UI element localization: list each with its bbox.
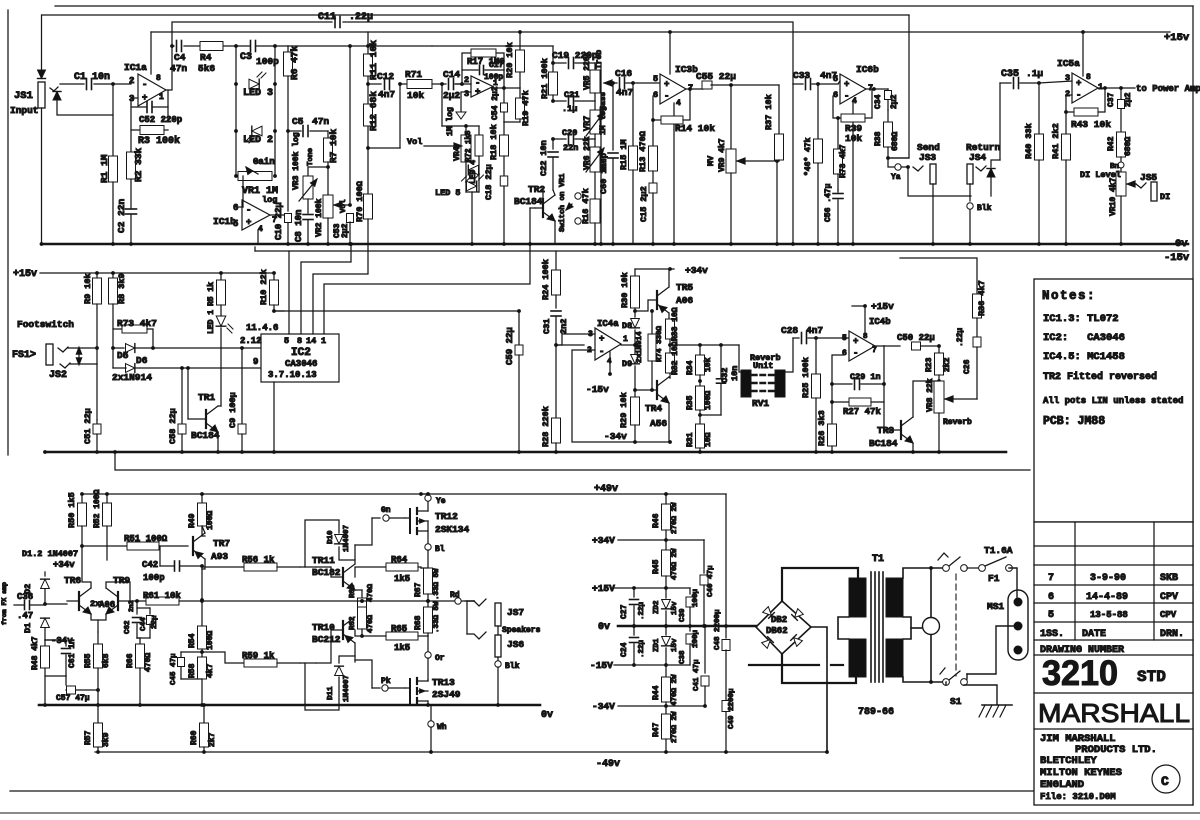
- wire R10 C59 run: [274, 310, 519, 312]
- wire reverb out: [785, 338, 793, 372]
- svg-text:+15v: +15v: [1164, 32, 1190, 44]
- svg-text:FS1>: FS1>: [12, 350, 36, 361]
- mosfet TR13: [409, 679, 411, 703]
- resistor R29: [631, 397, 640, 425]
- svg-text:-34v: -34v: [604, 431, 627, 442]
- svg-text:6: 6: [842, 349, 847, 358]
- capacitor C12: [384, 79, 386, 90]
- svg-text:D6: D6: [136, 355, 148, 366]
- svg-text:4k7: 4k7: [206, 663, 215, 678]
- resistor R72: [478, 126, 480, 135]
- svg-text:6: 6: [653, 90, 658, 100]
- svg-text:TR2 Fitted reversed: TR2 Fitted reversed: [1043, 371, 1157, 383]
- resistor R50: [81, 494, 83, 503]
- wire IC5a in: [1039, 81, 1072, 83]
- wire to IC3b: [633, 82, 660, 84]
- capacitor C29: [832, 355, 843, 384]
- svg-text:+15v: +15v: [871, 301, 894, 312]
- svg-text:47n: 47n: [312, 116, 329, 127]
- svg-text:D10: D10: [327, 530, 335, 544]
- svg-text:C27: C27: [620, 604, 629, 619]
- svg-text:C24: C24: [620, 642, 629, 657]
- svg-text:DI: DI: [1160, 192, 1170, 202]
- capacitor C32: [720, 345, 722, 378]
- resistor R31: [699, 415, 701, 424]
- wire R12 R70: [366, 146, 370, 150]
- wire transformer secondary ct: [838, 617, 849, 639]
- wire tone out: [604, 82, 613, 84]
- svg-text:2x1N914: 2x1N914: [636, 331, 644, 363]
- svg-text:C50 22µ: C50 22µ: [897, 333, 935, 343]
- bridge rectifier DB2: [756, 601, 811, 654]
- capacitor C57: [65, 676, 67, 685]
- svg-text:Vol: Vol: [407, 137, 422, 147]
- diode D11: [305, 663, 339, 710]
- resistor R67: [424, 568, 433, 594]
- wire JS1 sleeve to FX area top run: [42, 14, 909, 16]
- resistor R3: [131, 107, 140, 130]
- wire C11 drop to rail: [792, 84, 794, 244]
- svg-text:Bl: Bl: [435, 545, 445, 554]
- svg-text:6: 6: [1048, 592, 1054, 603]
- transistor TR1: [206, 406, 218, 432]
- svg-text:IC4.5: MC1458: IC4.5: MC1458: [1043, 351, 1125, 363]
- svg-text:R34: R34: [686, 360, 695, 375]
- svg-text:TR13: TR13: [432, 677, 455, 688]
- svg-text:-: -: [1076, 91, 1081, 101]
- svg-text:C28: C28: [781, 325, 798, 336]
- svg-text:CA3046: CA3046: [285, 359, 317, 369]
- wire TR11 collector: [354, 545, 356, 564]
- wire TR7 out: [201, 566, 203, 569]
- svg-text:6k8: 6k8: [102, 653, 111, 668]
- resistor R14 feedback: [653, 119, 661, 121]
- capacitor C44: [137, 607, 150, 609]
- node +15v IC5a: [1081, 30, 1085, 34]
- svg-text:3210: 3210: [1042, 654, 1118, 693]
- svg-text:10k: 10k: [407, 90, 424, 101]
- svg-text:D11: D11: [327, 686, 335, 700]
- svg-text:MS1: MS1: [987, 601, 1004, 612]
- resistor R57: [97, 705, 99, 723]
- wire IC4a out: [621, 344, 635, 346]
- svg-text:IC2: IC2: [291, 347, 311, 359]
- resistor R60: [203, 705, 205, 723]
- svg-text:C20: C20: [562, 128, 577, 138]
- resistor R5: [220, 273, 222, 280]
- svg-text:470Ω 2W: 470Ω 2W: [671, 674, 679, 706]
- diode D10: [305, 520, 339, 567]
- resistor R66: [137, 638, 140, 644]
- svg-text:1M log: 1M log: [446, 107, 455, 136]
- resistor R62: [358, 607, 367, 629]
- svg-text:.33Ω 5W: .33Ω 5W: [433, 568, 441, 600]
- wire switch to gnd: [945, 682, 947, 685]
- svg-text:TR7: TR7: [213, 538, 230, 549]
- svg-text:R37 10k: R37 10k: [764, 94, 774, 130]
- zener ZD2: [665, 588, 667, 598]
- capacitor C16: [619, 78, 621, 89]
- svg-text:2n2: 2n2: [559, 319, 569, 334]
- svg-text:R63: R63: [349, 584, 357, 598]
- svg-text:DRN.: DRN.: [1160, 629, 1184, 640]
- svg-text:1N4007: 1N4007: [343, 525, 351, 552]
- svg-text:+: +: [844, 80, 849, 90]
- svg-text:5: 5: [1048, 610, 1054, 621]
- svg-text:R56 1k: R56 1k: [242, 555, 275, 565]
- capacitor C14: [448, 79, 450, 90]
- switch S1 mains: [943, 565, 950, 572]
- svg-text:TR6: TR6: [64, 575, 81, 586]
- svg-text:R71: R71: [405, 69, 422, 80]
- svg-text:4: 4: [258, 225, 263, 234]
- svg-text:1: 1: [321, 336, 326, 346]
- capacitor C60: [612, 83, 614, 150]
- svg-text:C59 22µ: C59 22µ: [505, 327, 515, 365]
- svg-text:+34V: +34V: [592, 535, 615, 546]
- svg-text:R55: R55: [84, 653, 93, 668]
- wire input signal: [60, 83, 84, 85]
- wire to send: [888, 157, 909, 159]
- svg-text:4n7: 4n7: [616, 87, 633, 98]
- svg-text:9: 9: [253, 357, 258, 367]
- op-amp IC5a: [1072, 73, 1098, 103]
- wire IC6b in: [838, 81, 840, 84]
- resistor R10: [273, 273, 275, 280]
- svg-text:270Ω 2W: 270Ω 2W: [671, 502, 679, 534]
- border frame: [55, 5, 1193, 7]
- svg-text:SKB: SKB: [1160, 573, 1178, 584]
- svg-text:1k5: 1k5: [394, 643, 410, 653]
- wire tail gnd: [97, 690, 99, 705]
- mosfet TR12: [409, 509, 411, 533]
- wire IC2 pin8: [301, 244, 351, 334]
- svg-text:-: -: [246, 206, 251, 216]
- wire IC2 pin1: [324, 244, 530, 334]
- svg-text:R7 10k: R7 10k: [328, 128, 339, 163]
- svg-text:680Ω: 680Ω: [891, 132, 900, 151]
- wire R61 node: [200, 599, 204, 603]
- svg-text:R6 47k: R6 47k: [289, 45, 300, 80]
- svg-text:15v: 15v: [671, 601, 679, 615]
- svg-text:7: 7: [1048, 573, 1054, 584]
- potentiometer VR4 Vol: [441, 84, 443, 126]
- resistor R4: [200, 42, 223, 51]
- svg-text:470Ω 2W: 470Ω 2W: [671, 548, 679, 580]
- jack JS7: [474, 599, 486, 606]
- svg-text:LED 3: LED 3: [243, 88, 273, 99]
- capacitor C21: [552, 95, 554, 101]
- capacitor C37: [1120, 88, 1122, 99]
- wire gain cell left: [235, 46, 237, 176]
- resistor R36: [900, 258, 977, 294]
- svg-text:MARSHALL: MARSHALL: [1038, 698, 1190, 728]
- svg-text:A06: A06: [676, 295, 693, 306]
- svg-text:R51 100Ω: R51 100Ω: [124, 534, 168, 544]
- svg-text:TR4: TR4: [645, 403, 662, 414]
- resistor R12: [364, 104, 373, 126]
- svg-text:10k: 10k: [704, 357, 713, 372]
- svg-text:2SK134: 2SK134: [435, 524, 470, 535]
- resistor R59: [202, 652, 244, 663]
- capacitor C10: [287, 131, 289, 211]
- resistor R68: [427, 601, 429, 607]
- svg-text:R47: R47: [652, 722, 661, 737]
- diode D6: [112, 348, 114, 368]
- svg-text:3-9-90: 3-9-90: [1090, 573, 1126, 584]
- capacitor C20: [551, 137, 555, 141]
- transistor TR5: [657, 287, 669, 313]
- wire LED loop: [466, 191, 479, 193]
- capacitor C48: [725, 494, 727, 638]
- svg-text:+: +: [853, 337, 858, 347]
- svg-text:-15V: -15V: [590, 660, 613, 671]
- wire IC4a -15v: [609, 352, 611, 374]
- svg-text:Rd: Rd: [450, 591, 460, 600]
- wire transformer primary: [903, 568, 946, 578]
- svg-text:T1.6A: T1.6A: [984, 545, 1013, 556]
- capacitor C41: [704, 626, 706, 673]
- wire IC2 gnd: [273, 382, 275, 452]
- svg-text:-15v: -15v: [1164, 252, 1190, 264]
- svg-text:BC184: BC184: [191, 430, 220, 441]
- svg-text:.1µ: .1µ: [1026, 68, 1043, 79]
- svg-text:IC2: CA3046: IC2: CA3046: [1043, 332, 1125, 344]
- capacitor C58: [181, 368, 183, 424]
- capacitor C26: [976, 318, 978, 337]
- svg-text:C10 22µ: C10 22µ: [274, 202, 284, 240]
- svg-text:C14: C14: [443, 69, 460, 80]
- svg-text:3: 3: [129, 94, 134, 104]
- resistor R41: [1065, 112, 1067, 134]
- svg-text:C26: C26: [963, 359, 972, 374]
- resistor R13: [652, 96, 654, 146]
- op-amp IC3b: [660, 74, 686, 104]
- zener ZD1: [665, 626, 667, 635]
- capacitor C55: [702, 85, 704, 89]
- LED 1: [216, 316, 226, 326]
- wire IC3b +15: [669, 32, 671, 74]
- wire 0v rail top band: [42, 243, 1188, 246]
- potentiometer VR3 Tone: [308, 167, 328, 176]
- svg-text:R36 4k7: R36 4k7: [977, 280, 987, 316]
- svg-text:Reverb: Reverb: [943, 418, 972, 427]
- capacitor C50: [912, 342, 921, 350]
- svg-text:470Ω: 470Ω: [367, 614, 375, 633]
- svg-text:BC212: BC212: [312, 634, 341, 645]
- wire gain cell right: [274, 46, 276, 176]
- svg-text:ZD1: ZD1: [653, 638, 661, 652]
- svg-text:C41 47µ: C41 47µ: [693, 659, 701, 691]
- svg-text:C35: C35: [1001, 69, 1019, 80]
- svg-text:C8 10n: C8 10n: [294, 210, 304, 242]
- resistor R23: [938, 346, 940, 353]
- svg-text:R73 4k7: R73 4k7: [117, 318, 157, 329]
- svg-text:8: 8: [297, 336, 302, 346]
- svg-text:680Ω: 680Ω: [1124, 137, 1133, 156]
- svg-text:14: 14: [306, 336, 316, 346]
- resistor R64: [355, 567, 386, 577]
- wire IC2a gnd: [461, 92, 471, 112]
- wire IC6b pin4: [852, 102, 854, 244]
- svg-text:R20 10k: R20 10k: [505, 42, 515, 78]
- svg-text:C34: C34: [874, 94, 883, 109]
- resistor R73b: [837, 118, 839, 149]
- resistor R65: [355, 630, 362, 636]
- svg-text:R32 10Ω: R32 10Ω: [671, 341, 680, 375]
- resistor R1: [112, 84, 114, 156]
- capacitor C15: [649, 183, 657, 193]
- svg-text:D8: D8: [622, 321, 632, 331]
- svg-text:R48 4k7: R48 4k7: [31, 636, 40, 670]
- IC2 CA3046 box: [261, 334, 339, 382]
- svg-text:-: -: [844, 92, 849, 102]
- op-amp IC1b: [242, 200, 270, 230]
- resistor R37: [778, 85, 780, 134]
- svg-text:Blk: Blk: [505, 662, 520, 671]
- svg-text:IC6b: IC6b: [856, 64, 879, 75]
- wire IC1a pin3: [131, 97, 138, 99]
- transistor TR11: [343, 564, 355, 590]
- svg-text:A56: A56: [650, 418, 667, 429]
- svg-text:STD: STD: [1137, 668, 1166, 686]
- LED 2: [252, 126, 262, 136]
- resistor R38: [887, 110, 889, 122]
- svg-text:R74 330Ω: R74 330Ω: [656, 325, 664, 362]
- op-amp IC2a: [471, 76, 493, 97]
- potentiometer VR7 Bass: [594, 101, 596, 110]
- resistor R44: [665, 665, 667, 677]
- LED 3: [249, 79, 259, 89]
- capacitor C3: [250, 41, 252, 52]
- svg-text:.22µ: .22µ: [638, 639, 646, 658]
- resistor R7: [327, 131, 329, 138]
- wire C11 run: [172, 22, 332, 46]
- potentiometer VR5: [594, 63, 596, 70]
- svg-text:-: -: [853, 349, 858, 359]
- svg-text:R66: R66: [126, 653, 135, 668]
- svg-text:.47: .47: [17, 611, 33, 621]
- svg-text:VR3 100k log: VR3 100k log: [292, 132, 301, 190]
- svg-text:8: 8: [1086, 73, 1091, 82]
- wire footswitch: [68, 347, 97, 349]
- svg-text:R42: R42: [1107, 136, 1116, 151]
- svg-text:2SJ49: 2SJ49: [432, 689, 461, 700]
- svg-text:R50 1k5: R50 1k5: [67, 492, 77, 528]
- svg-text:TR9: TR9: [113, 575, 130, 586]
- svg-text:R38: R38: [874, 131, 883, 146]
- transistor TR10: [343, 617, 355, 643]
- svg-text:-49v: -49v: [596, 759, 620, 770]
- capacitor C31: [555, 295, 557, 308]
- notes box: [1034, 279, 1193, 522]
- wire IC5a out: [1098, 87, 1135, 89]
- svg-text:Input: Input: [10, 105, 39, 116]
- svg-text:1SS.: 1SS.: [1040, 629, 1064, 640]
- svg-text:from FX amp: from FX amp: [1, 582, 8, 625]
- wire D5 to IC2: [153, 347, 242, 349]
- wire -15v rail psu: [614, 664, 690, 666]
- resistor R42: [1117, 132, 1126, 157]
- resistor R63: [361, 590, 363, 598]
- wire R34 line: [670, 344, 739, 346]
- resistor R55: [97, 632, 99, 644]
- svg-text:2µ2: 2µ2: [890, 94, 899, 109]
- resistor R70: [367, 32, 369, 194]
- svg-text:JS4: JS4: [969, 152, 986, 163]
- lamp: [930, 568, 932, 618]
- svg-text:R29 10k: R29 10k: [619, 392, 629, 428]
- svg-text:C42: C42: [142, 560, 158, 570]
- potentiometer VR1 Gain: [238, 172, 272, 181]
- svg-text:R30 10k: R30 10k: [620, 272, 630, 308]
- svg-text:DB62: DB62: [766, 626, 788, 636]
- wire D6 to IC2: [188, 367, 261, 369]
- svg-text:R27 47k: R27 47k: [843, 407, 881, 417]
- wire IC1a +15: [150, 32, 152, 74]
- wire bridge top: [782, 568, 858, 601]
- wire MV out: [776, 161, 778, 244]
- svg-text:D1.2 1N4007: D1.2 1N4007: [22, 549, 78, 559]
- svg-text:C44: C44: [140, 617, 148, 631]
- svg-text:R13 470Ω: R13 470Ω: [638, 131, 648, 172]
- wire IC4a in: [556, 334, 595, 345]
- svg-text:C37: C37: [1107, 92, 1116, 107]
- wire R7 bottom: [327, 162, 329, 195]
- wire JS1 sleeve down: [41, 108, 43, 244]
- svg-text:IC5a: IC5a: [1057, 58, 1080, 69]
- svg-text:2µ2: 2µ2: [443, 90, 460, 101]
- wire 0v rail psu: [618, 625, 756, 628]
- svg-text:BLETCHLEY: BLETCHLEY: [1040, 755, 1097, 767]
- capacitor C8: [307, 199, 309, 213]
- svg-text:+49v: +49v: [594, 484, 618, 495]
- svg-text:All pots LIN unless stated: All pots LIN unless stated: [1043, 396, 1183, 406]
- resistor R2: [130, 130, 132, 152]
- svg-text:BC184: BC184: [514, 196, 543, 207]
- svg-text:LED 1: LED 1: [207, 310, 216, 334]
- svg-text:BC182: BC182: [312, 567, 341, 578]
- svg-text:3: 3: [464, 89, 469, 99]
- capacitor C1: [86, 79, 88, 90]
- svg-text:Gain: Gain: [253, 157, 275, 167]
- svg-text:100µ: 100µ: [692, 629, 700, 648]
- svg-text:0v: 0v: [541, 710, 553, 721]
- svg-text:R25 100k: R25 100k: [801, 357, 811, 398]
- capacitor C62: [136, 601, 138, 614]
- svg-text:4n7: 4n7: [378, 89, 395, 100]
- wire driver to TR11: [300, 566, 316, 568]
- svg-text:VR7: VR7: [582, 116, 592, 131]
- svg-text:+: +: [475, 87, 480, 97]
- svg-text:R73 4k7: R73 4k7: [839, 144, 848, 178]
- svg-text:100Ω: 100Ω: [206, 511, 215, 530]
- jack JS1 Input: [38, 82, 45, 108]
- svg-text:C9 100µ: C9 100µ: [228, 392, 238, 428]
- svg-text:R52 100Ω: R52 100Ω: [93, 489, 102, 528]
- svg-text:.22µ: .22µ: [956, 328, 965, 347]
- svg-text:-: -: [599, 347, 604, 357]
- capacitor C34: [874, 88, 888, 90]
- svg-text:R67: R67: [414, 582, 423, 597]
- svg-text:Vol: Vol: [340, 199, 348, 213]
- svg-text:6: 6: [833, 90, 838, 100]
- svg-text:C58 22µ: C58 22µ: [168, 408, 178, 444]
- svg-text:.33Ω 5W: .33Ω 5W: [433, 601, 441, 633]
- svg-text:VR8 22k: VR8 22k: [926, 378, 935, 412]
- svg-text:DATE: DATE: [1082, 629, 1106, 640]
- svg-text:C: C: [1161, 774, 1169, 789]
